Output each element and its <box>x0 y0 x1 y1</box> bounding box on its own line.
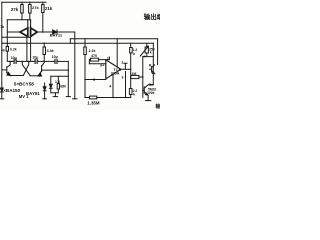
wire to diode D1 <box>37 31 52 33</box>
transistor Q3 lower left <box>9 61 11 64</box>
wire x30.6 down <box>30 37 32 62</box>
svg-text:2.2k: 2.2k <box>89 49 96 53</box>
transistor Q5 output <box>143 87 145 94</box>
wire R10 right lead <box>139 76 143 78</box>
wire R7 leads <box>84 39 86 98</box>
svg-text:MV 1: MV 1 <box>19 94 29 99</box>
wire X cross diag A <box>22 61 30 75</box>
resistor R11 2.2k lower <box>129 89 132 95</box>
wire cap row mid-right <box>39 60 54 62</box>
svg-text:21k: 21k <box>45 6 53 11</box>
wire x7.3 down to resistor 0.2k <box>6 20 8 47</box>
junction dots <box>7 31 144 98</box>
svg-text:输出端: 输出端 <box>144 12 160 21</box>
wire pin4 vertical <box>112 75 114 98</box>
wire wing2 top lead <box>30 20 32 27</box>
svg-text:k: k <box>133 93 135 97</box>
resistor R13 1.35M <box>90 96 97 99</box>
wire R9 leads <box>130 43 132 88</box>
wire wing1 top lead <box>27 20 29 27</box>
wire R8 left hook <box>89 60 90 64</box>
diode D2 <box>50 76 52 84</box>
wire R3 leads <box>42 2 44 32</box>
diode D3 legend left <box>1 87 3 90</box>
svg-text:1.8: 1.8 <box>55 80 60 84</box>
svg-text:k: k <box>150 51 152 55</box>
wire pot bottom jog <box>143 53 154 57</box>
resistor R2 27k <box>29 5 32 14</box>
wire node row y19.8 <box>7 19 30 21</box>
svg-text:27k: 27k <box>11 7 19 12</box>
svg-text:10µ: 10µ <box>52 55 58 59</box>
wire R4 bottom lead <box>7 51 12 61</box>
svg-text:4: 4 <box>109 84 111 88</box>
wire output up to rail <box>116 39 118 66</box>
wire right edge corner down <box>157 39 159 65</box>
svg-text:470: 470 <box>91 54 97 58</box>
varistor right wing <box>31 28 38 37</box>
diode D1 BAY11 <box>53 30 57 34</box>
wire left border vertical <box>1 2 3 87</box>
potentiometer R12 250k <box>145 47 148 53</box>
wire R6 leads <box>57 76 59 93</box>
wire x142.8 vertical <box>142 57 144 98</box>
svg-text:1.35M: 1.35M <box>87 100 100 105</box>
resistor R1 27k <box>21 5 24 14</box>
transistor Q4 lower right <box>41 66 43 72</box>
svg-text:27k: 27k <box>32 5 39 10</box>
resistor R8 470 <box>90 58 98 61</box>
wire output <box>121 68 131 70</box>
svg-text:k: k <box>144 55 146 59</box>
transistor Q6 mini <box>151 66 153 72</box>
wire x74.8 vertical <box>74 39 76 99</box>
resistor R7 2.2k upper <box>84 47 87 55</box>
wire R5 leads <box>43 43 45 61</box>
wire stub down with tick <box>53 93 57 97</box>
wire collector vertical <box>152 43 154 84</box>
varistor left wing <box>20 28 28 37</box>
wire diode/resistor top row <box>51 75 69 77</box>
svg-text:5×BCY58: 5×BCY58 <box>14 82 34 87</box>
wire cap3 right lead to corner <box>59 60 69 62</box>
svg-text:335A: 335A <box>111 72 120 76</box>
svg-text:3: 3 <box>122 76 124 80</box>
svg-text:680: 680 <box>60 85 66 89</box>
svg-text:7k: 7k <box>0 25 4 29</box>
svg-text:1: 1 <box>107 57 109 61</box>
wire corner down to rail <box>74 32 76 39</box>
svg-text:1M: 1M <box>131 72 136 76</box>
wire emitter row right <box>30 75 38 77</box>
wire bottom join <box>51 92 59 94</box>
svg-text:输: 输 <box>156 103 161 110</box>
svg-text:BAY11: BAY11 <box>50 33 63 38</box>
diode D4 legend right <box>44 83 46 87</box>
svg-text:3.3k: 3.3k <box>47 49 54 53</box>
svg-text:2: 2 <box>121 60 123 64</box>
svg-text:0.2k: 0.2k <box>10 48 17 52</box>
wire x68.3 long vertical <box>67 61 69 96</box>
wire cap row left-mid <box>18 60 34 62</box>
svg-text:k: k <box>133 52 135 56</box>
svg-text:10µ: 10µ <box>11 56 17 60</box>
wire x26.9 down <box>26 37 28 62</box>
svg-text:×BA150: ×BA150 <box>3 88 20 93</box>
wire diode to corner <box>57 31 75 33</box>
svg-text:40: 40 <box>1 48 5 52</box>
wire emitter row y37.2 <box>2 36 30 38</box>
wire R11 bottom lead <box>130 95 132 98</box>
wire pin3 vertical <box>125 72 127 98</box>
resistor R3 21k <box>42 5 45 13</box>
op-amp U1 triangle <box>106 60 121 79</box>
wire R8 right hook pin1 <box>99 57 110 60</box>
wire op-amp pin5 <box>85 79 106 81</box>
wire Q3 emitter row <box>10 75 23 77</box>
wire main rail y38.8 <box>70 38 157 40</box>
capacitor C3 10u <box>55 59 57 63</box>
wire pin6 <box>89 63 105 65</box>
wire R1 bottom lead <box>21 13 23 20</box>
wire corner up x70.3 <box>69 39 71 43</box>
wire mid rail y43 <box>2 42 154 44</box>
resistor R5 3.3k <box>43 47 46 55</box>
wire R1 top lead <box>21 2 23 4</box>
wire X cross diag B <box>23 61 28 75</box>
capacitor C1 10u <box>14 59 16 63</box>
svg-text:100k: 100k <box>147 91 155 95</box>
svg-text:6+: 6+ <box>100 64 104 68</box>
ground tick x68.3 <box>66 96 70 98</box>
trimmer arrow <box>140 46 148 56</box>
svg-text:10µ: 10µ <box>32 56 38 60</box>
resistor R6 680 <box>57 84 59 89</box>
ground tick x74.8 <box>73 98 77 100</box>
resistor R10 1M <box>131 75 139 78</box>
wire pot top lead <box>146 43 148 47</box>
capacitor C2 10u <box>35 59 37 63</box>
wire top supply rail <box>2 1 46 3</box>
wire pin2 stub <box>124 63 127 69</box>
wire R2 leads <box>29 2 31 20</box>
wire stub y32 left <box>7 31 19 33</box>
resistor R9 1.2k <box>130 48 133 53</box>
svg-text:5: 5 <box>93 78 95 82</box>
wire Q4 base <box>42 69 69 71</box>
wire bottom rail <box>85 97 131 99</box>
resistor R4 0.2k <box>6 46 8 51</box>
